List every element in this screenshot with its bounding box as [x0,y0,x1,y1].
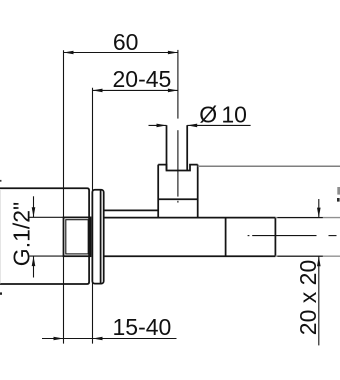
cartridge tower right edge [197,165,199,218]
arrow G1/2 top [32,207,36,217]
extension/centre line right solid part (x=177.9) [177,50,179,119]
arrow 20x20 top [317,208,321,218]
dim 20x20 line top tail [318,199,320,218]
gray continuation spout top [275,217,340,219]
centre line dash [177,130,179,196]
thread square inner [66,220,88,254]
dark cropped mark at right edge [337,198,340,202]
dim 20x20 extension top [277,217,322,219]
dim G1/2 line bottom tail [33,256,35,277]
gray cropped mark at right edge [337,187,340,195]
dim G1/2 extension bottom [30,255,64,257]
gray continuation line top [198,165,340,167]
arrow 20-45 right [168,89,178,93]
dim G1/2 extension top [30,216,64,218]
cartridge tower top cap with gland notch [158,165,198,171]
svg-text:20-45: 20-45 [113,66,172,92]
faint remnant of plate left edge at crop [0,189,1,283]
extension line left (x=63.5) [63,50,65,343]
arrow Ø10 right [187,124,197,128]
arrow G1/2 bottom [32,256,36,266]
dim 20x20 line bottom tail [318,256,320,345]
thread square G1/2 outer [64,217,91,256]
arrow 15-40 left [54,337,64,341]
arrow 15-40 right [93,337,103,341]
stem tube right [186,125,188,170]
stem tube left [166,125,168,170]
spout centre line long dash [252,235,316,237]
dim line 20-45 [93,89,178,91]
svg-text:10: 10 [221,102,247,128]
dim 15-40 line [42,338,177,340]
arrow 60 right [168,51,178,55]
seam between body and spout [225,218,227,257]
spout centre line end dash [329,235,337,237]
spout centre line dot [248,235,250,237]
gray continuation spout bottom [275,255,340,257]
centre line dot [177,201,179,203]
dark tick artifact top-left [0,180,2,182]
svg-text:60: 60 [113,29,139,55]
spout end cap [274,218,276,257]
arrow 20-45 left [93,89,103,93]
left edge tick artifact [0,292,2,294]
svg-text:G.1/2": G.1/2" [9,202,35,266]
dim line 60 [64,52,178,54]
svg-text:Ø: Ø [199,102,217,128]
arrow 60 left [64,51,74,55]
body bottom edge [104,255,276,257]
dim G1/2 line top tail [33,196,35,217]
dim Ø10 shelf [187,124,250,126]
arrow Ø10 left [157,124,167,128]
svg-text:15-40: 15-40 [113,314,172,340]
cartridge tower seam [158,198,198,200]
extension line mid (x=92.3) [92,88,94,344]
body top edge [104,217,276,219]
dim Ø10 arrow line left tail [149,124,167,126]
arrow 20x20 bottom [317,256,321,266]
wall plate (escutcheon), left side cropped at image edge [0,188,89,284]
neck top line [104,209,159,211]
dim 20x20 extension bottom [277,255,322,257]
collar (flange of plate) [92,190,103,284]
cartridge tower left edge [157,165,159,218]
svg-text:20 x 20: 20 x 20 [295,260,321,335]
